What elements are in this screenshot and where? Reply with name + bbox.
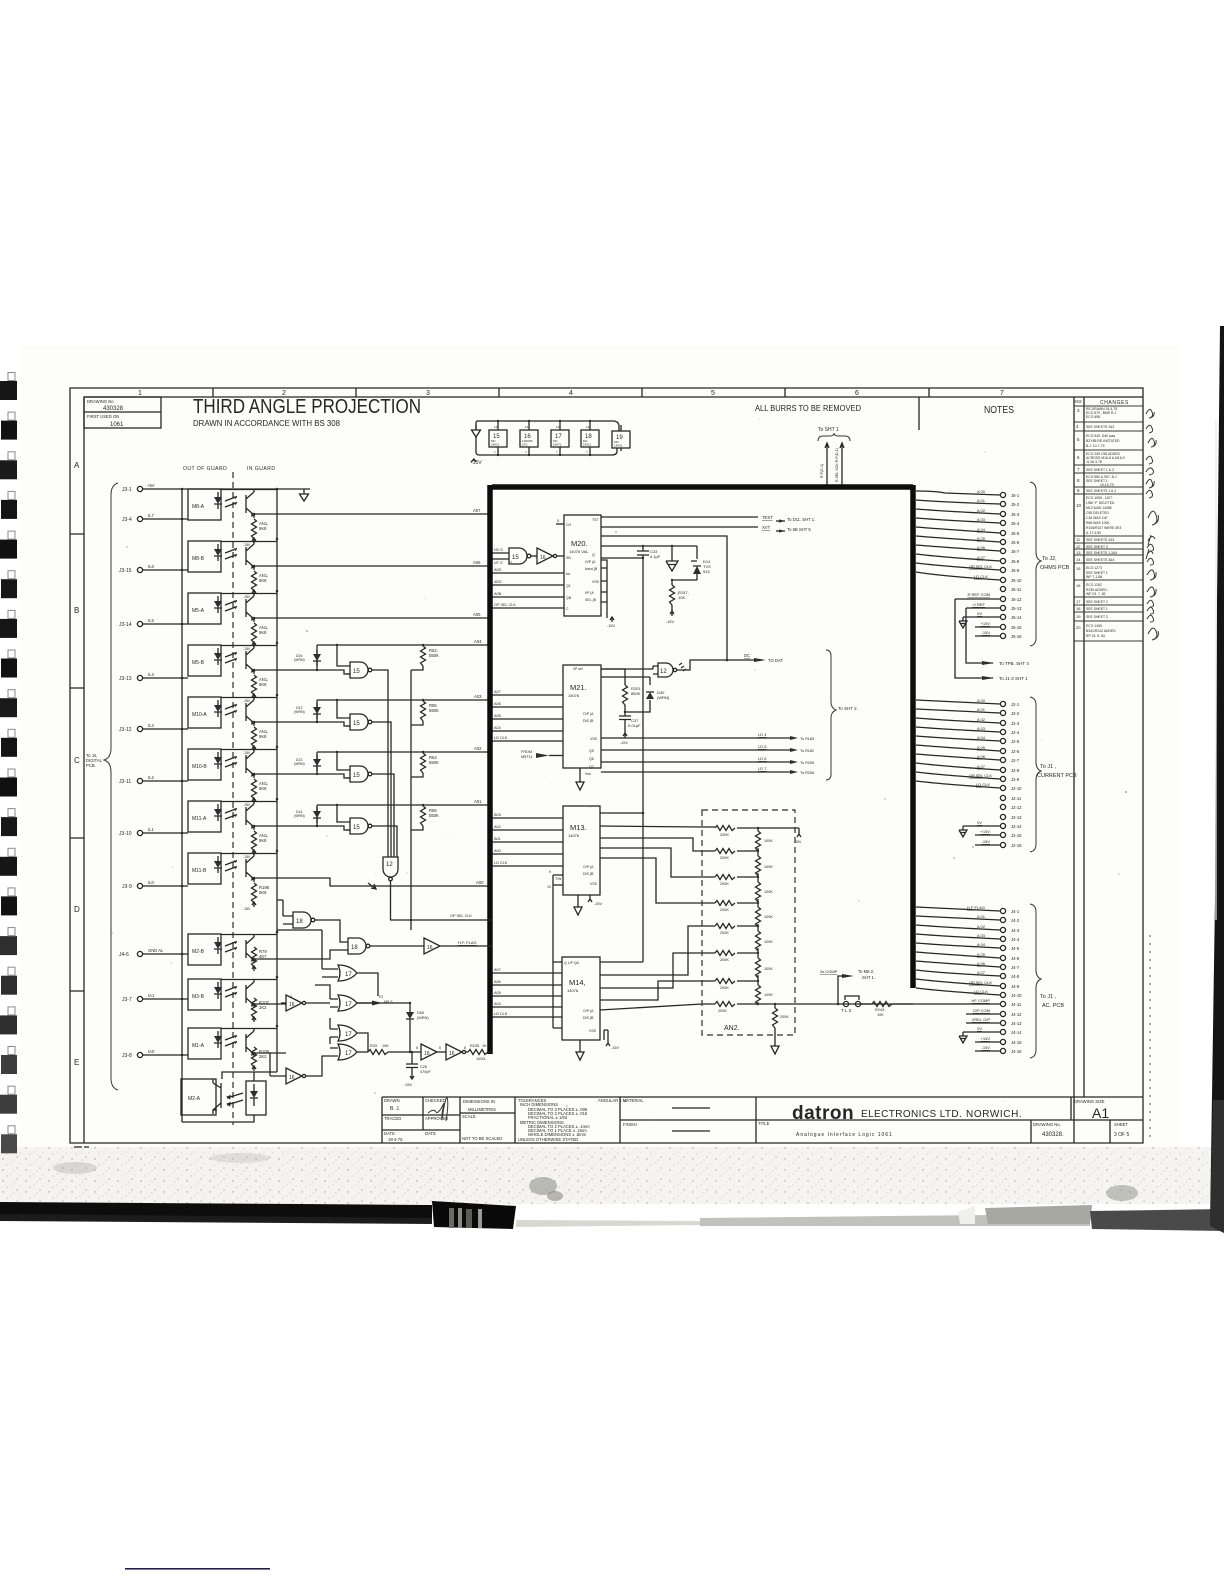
svg-text:10K.: 10K. (678, 595, 686, 600)
svg-text:200K: 200K (720, 986, 729, 990)
+5V input J3-1 (122, 483, 310, 493)
svg-text:ALL BURRS TO BE REMOVED: ALL BURRS TO BE REMOVED (755, 403, 861, 413)
pull resistor R55 550K (411, 700, 439, 725)
svg-text:J4-15: J4-15 (1011, 1040, 1022, 1045)
svg-text:10K: 10K (382, 1044, 389, 1048)
svg-text:O/P {A: O/P {A (585, 560, 596, 564)
svg-text:17: 17 (345, 1002, 352, 1008)
svg-text:200K: 200K (718, 1009, 727, 1013)
svg-text:200K: 200K (720, 958, 729, 962)
svg-text:IL6: IL6 (148, 564, 154, 569)
svg-text:14076.: 14076. (567, 988, 579, 993)
svg-text:HF COMP: HF COMP (972, 998, 991, 1003)
svg-text:J5-10: J5-10 (1011, 578, 1022, 583)
svg-text:CURRENT PCB: CURRENT PCB (1037, 773, 1077, 779)
svg-text:VSS: VSS (589, 1029, 597, 1033)
svg-text:3 OF 5: 3 OF 5 (1114, 1132, 1130, 1138)
svg-text:5: 5 (416, 1046, 418, 1050)
OP SEL CLK net (390, 919, 492, 921)
svg-text:J4-6: J4-6 (119, 952, 129, 958)
svg-text:A06: A06 (494, 702, 501, 706)
aux wires rows 12-16 (955, 599, 1000, 636)
svg-text:A03: A03 (494, 813, 501, 817)
svg-text:APPROVED: APPROVED (425, 1116, 448, 1121)
wire bottom supply bus (476, 437, 617, 455)
svg-text:CHANGES: CHANGES (1100, 400, 1129, 406)
zone letter dividers left (70, 534, 84, 991)
svg-text:IA1: IA1 (148, 993, 155, 998)
row 8 resistor 200K (715, 1002, 913, 1014)
svg-text:550K: 550K (429, 708, 439, 713)
svg-text:AN2.: AN2. (724, 1025, 740, 1032)
svg-text:12: 12 (386, 862, 393, 868)
svg-text:J4-4: J4-4 (1011, 937, 1020, 942)
svg-text:M11-B: M11-B (192, 868, 207, 874)
svg-text:SHT 1.: SHT 1. (862, 975, 875, 980)
svg-text:J5-4: J5-4 (1011, 521, 1020, 526)
svg-text:14: 14 (494, 425, 498, 429)
svg-text:J2-15: J2-15 (1011, 833, 1022, 838)
NAND gate 15a (337, 645, 388, 857)
opto rows (119, 489, 492, 1122)
black shadow band bottom left (0, 1202, 432, 1219)
svg-text:SCALE: SCALE (462, 1114, 476, 1119)
svg-text:C26: C26 (420, 1065, 427, 1069)
junction dots (181, 488, 279, 1057)
pullup diode D12 (294, 700, 321, 722)
svg-text:-15V: -15V (243, 907, 251, 911)
svg-text:19: 19 (1076, 614, 1081, 619)
svg-text:J4-3: J4-3 (1011, 928, 1020, 933)
svg-text:5: 5 (557, 519, 559, 523)
outer border (70, 388, 1143, 1143)
row 3 resistor 200K (715, 875, 758, 887)
svg-text:R65 WAS 100K: R65 WAS 100K (1086, 521, 1110, 525)
svg-text:TITLE: TITLE (758, 1121, 770, 1126)
svg-text:2K2: 2K2 (259, 1005, 267, 1010)
svg-text:14071: 14071 (553, 443, 562, 447)
svg-text:DC: DC (744, 653, 750, 658)
svg-text:17: 17 (345, 1032, 352, 1038)
svg-text:M11-A: M11-A (192, 816, 207, 822)
svg-text:13: 13 (1076, 550, 1081, 555)
svg-text:0V: 0V (977, 820, 982, 825)
pullup diode D15 (294, 645, 321, 670)
svg-text:J4-7: J4-7 (1011, 965, 1020, 970)
svg-text:IL2: IL2 (148, 775, 154, 780)
svg-text:DIS {B: DIS {B (583, 1016, 594, 1020)
OR gate 17d (309, 1044, 368, 1076)
svg-text:H.F. FLAG: H.F. FLAG (458, 940, 477, 945)
scan dust specks (101, 418, 1128, 1120)
svg-text:A 06: A 06 (977, 961, 986, 966)
Q output bus (601, 545, 697, 547)
svg-text:J4-14: J4-14 (1011, 1030, 1022, 1035)
ladder resistor 100K 5 (756, 925, 774, 953)
M20 input nets (492, 573, 556, 608)
ladder resistor 100K 2 (756, 850, 774, 877)
svg-text:SEE SHEET 2: SEE SHEET 2 (1086, 615, 1108, 619)
svg-text:5K8: 5K8 (259, 890, 267, 895)
svg-text:+15V: +15V (981, 829, 991, 834)
svg-text:R REF COM: R REF COM (968, 592, 990, 597)
svg-text:-15V: -15V (243, 803, 251, 807)
svg-text:OP SEL CLK: OP SEL CLK (494, 603, 516, 607)
svg-text:DIS {B: DIS {B (583, 719, 594, 723)
svg-text:VSS: VSS (592, 580, 600, 584)
IC 16 (520, 421, 538, 455)
NAND gate 18b (286, 938, 424, 959)
svg-text:VSS: VSS (590, 737, 598, 741)
svg-text:NO S: NO S (494, 548, 503, 552)
svg-text:J3-15: J3-15 (119, 568, 132, 574)
svg-text:J5-15: J5-15 (1011, 625, 1022, 630)
svg-text:B341/R242 ADDED: B341/R242 ADDED (1086, 629, 1116, 633)
svg-text:To J1 ,: To J1 , (1040, 994, 1057, 1000)
svg-text:200K: 200K (720, 908, 729, 912)
svg-text:-15V: -15V (666, 620, 674, 624)
To SHT 2 brace (826, 650, 836, 780)
NAND gate 15b (337, 700, 391, 857)
svg-text:(WRN): (WRN) (417, 1016, 429, 1020)
svg-text:7: 7 (1000, 390, 1004, 397)
pin numbers J5 (1011, 493, 1022, 639)
svg-text:ECO 1055 , 1107: ECO 1055 , 1107 (1086, 496, 1112, 500)
svg-text:A 01: A 01 (977, 498, 986, 503)
opto-isolator M5-B (119, 645, 350, 703)
svg-text:M2-B: M2-B (192, 949, 205, 955)
svg-text:MATERIAL: MATERIAL (623, 1098, 644, 1103)
svg-text:J2-5: J2-5 (1011, 739, 1020, 744)
svg-text:4DD: 4DD (494, 580, 502, 584)
svg-text:5K8: 5K8 (259, 630, 267, 635)
input NAND gate 15 (492, 548, 531, 565)
svg-text:5K8: 5K8 (259, 682, 267, 687)
guard dashed line (232, 472, 234, 1125)
svg-text:SHEET: SHEET (1114, 1122, 1128, 1127)
svg-text:SEE SHEETS 2&3: SEE SHEETS 2&3 (1086, 538, 1114, 542)
svg-text:UNLESS OTHERWISE STATED: UNLESS OTHERWISE STATED (518, 1137, 578, 1142)
svg-text:1061: 1061 (110, 422, 124, 428)
svg-text:A06: A06 (494, 980, 501, 984)
M13 ground (574, 895, 582, 915)
ladder resistor 100K 7 (756, 980, 774, 1005)
svg-text:A 07: A 07 (977, 764, 986, 769)
svg-text:ECO 698: ECO 698 (1086, 415, 1100, 419)
svg-text:3: 3 (426, 390, 430, 397)
svg-text:M20.: M20. (571, 539, 588, 548)
IC 17 (551, 421, 569, 455)
svg-text:J3-11: J3-11 (119, 779, 131, 785)
svg-text:200K: 200K (720, 931, 729, 935)
connector pins J4-1..J4-16 (1000, 908, 1005, 913)
svg-text:-15V: -15V (982, 839, 991, 844)
dashed box (702, 810, 795, 1035)
svg-text:FROM: FROM (521, 750, 532, 754)
svg-text:14001: 14001 (614, 444, 623, 448)
svg-text:To R205: To R205 (800, 761, 814, 765)
svg-text:DRAWING No.: DRAWING No. (1033, 1122, 1061, 1127)
TEST output (601, 516, 758, 518)
svg-text:To R206: To R206 (800, 771, 814, 775)
svg-text:J3-13: J3-13 (119, 676, 132, 682)
svg-text:A 07: A 07 (977, 970, 986, 975)
wire with up arrow (840, 443, 844, 487)
svg-text:A 04: A 04 (977, 527, 986, 532)
svg-text:J3-4: J3-4 (122, 517, 132, 523)
svg-text:M3-B: M3-B (192, 994, 205, 1000)
svg-text:0.1µF: 0.1µF (650, 554, 661, 559)
svg-text:LD CLK: LD CLK (976, 782, 990, 787)
svg-text:J4-2: J4-2 (1011, 918, 1020, 923)
svg-text:SEE SHEET 3: SEE SHEET 3 (1086, 545, 1108, 549)
svg-text:J4-13: J4-13 (1011, 1021, 1022, 1026)
connector pins J2-1..J2-16 (1000, 701, 1005, 706)
svg-text:TRACED: TRACED (384, 1116, 401, 1121)
svg-text:100K: 100K (764, 915, 773, 919)
svg-text:-V REF: -V REF (972, 602, 986, 607)
svg-text:+15V: +15V (981, 1036, 991, 1041)
row 5 resistor 200K (715, 924, 758, 936)
svg-text:(WRN): (WRN) (294, 710, 305, 714)
svg-text:DRAWING SIZE: DRAWING SIZE (1074, 1099, 1105, 1104)
svg-text:M12 WAS 14068: M12 WAS 14068 (1086, 506, 1112, 510)
opto-isolator M8-B (119, 541, 492, 599)
svg-text:To TPB. SHT 4: To TPB. SHT 4 (999, 661, 1029, 666)
opto-isolator M2-A (reversed) (181, 1072, 277, 1122)
row lines (1074, 406, 1143, 641)
svg-text:WP 7-1-88: WP 7-1-88 (1086, 575, 1102, 579)
svg-text:J2-10: J2-10 (1011, 786, 1022, 791)
svg-text:0V: 0V (977, 611, 982, 616)
svg-text:17: 17 (345, 1051, 352, 1057)
svg-text:A05: A05 (473, 612, 481, 617)
svg-text:To 6B SHT 5: To 6B SHT 5 (787, 527, 811, 532)
pull resistor R54 550K (411, 752, 439, 777)
buffer 16e (446, 1044, 466, 1060)
svg-text:LD CLK: LD CLK (494, 736, 508, 740)
svg-text:GND AL: GND AL (148, 948, 164, 953)
svg-text:CH: CH (566, 523, 572, 527)
NAND gate 18a (277, 900, 348, 942)
link TL3 (841, 996, 861, 1013)
svg-text:SEE SHEET 2: SEE SHEET 2 (1086, 600, 1108, 604)
svg-text:WP 23. 7. 82: WP 23. 7. 82 (1086, 592, 1106, 596)
opto-isolator M11-B (122, 853, 492, 911)
svg-text:B. J.: B. J. (390, 1106, 400, 1112)
svg-text:ECO 1455: ECO 1455 (1086, 624, 1102, 628)
svg-text:T L 3: T L 3 (841, 1008, 852, 1013)
ground top of column (300, 489, 309, 501)
svg-text:VSS: VSS (590, 882, 598, 886)
NAND gate 15d (337, 805, 397, 857)
svg-text:To R183: To R183 (800, 737, 814, 741)
svg-text:IL 17.4.80: IL 17.4.80 (1086, 531, 1101, 535)
svg-text:15: 15 (353, 669, 360, 675)
Q top output to vertical (600, 812, 643, 814)
svg-text:-15V: -15V (243, 699, 251, 703)
svg-text:A 07: A 07 (977, 555, 986, 560)
svg-text:5: 5 (711, 390, 715, 397)
svg-text:550K: 550K (429, 760, 439, 765)
Q output down to DC junction (601, 536, 727, 660)
svg-text:BZY88 RE-INSTATED: BZY88 RE-INSTATED (1086, 439, 1120, 443)
svg-text:Analogue Interface Logic 10: Analogue Interface Logic 1061 (796, 1132, 893, 1138)
svg-text:14012: 14012 (491, 443, 500, 447)
svg-text:J5-6: J5-6 (1011, 540, 1020, 545)
svg-text:-15V: -15V (404, 1083, 412, 1087)
svg-text:15: 15 (353, 721, 360, 727)
svg-text:15: 15 (353, 825, 360, 831)
svg-text:-15V: -15V (243, 595, 251, 599)
svg-text:A1: A1 (1092, 1105, 1109, 1121)
pin numbers J2 (1011, 702, 1022, 848)
svg-text:J4-11: J4-11 (1011, 1002, 1022, 1007)
row 4 resistor 200K (715, 901, 758, 913)
svg-text:1: 1 (138, 390, 142, 397)
svg-text:ECO 1273: ECO 1273 (1086, 566, 1102, 570)
svg-text:9: 9 (549, 870, 551, 874)
svg-text:M13.: M13. (570, 823, 587, 832)
svg-text:J5-5: J5-5 (1011, 531, 1020, 536)
svg-text:550K: 550K (429, 653, 439, 658)
svg-text:To SHT 2.: To SHT 2. (838, 706, 858, 711)
opto-isolator M5-A (119, 593, 492, 651)
svg-text:2s COMP: 2s COMP (820, 969, 838, 974)
svg-text:(WRN): (WRN) (657, 695, 670, 700)
svg-text:430328: 430328 (103, 406, 124, 412)
net A03 (317, 699, 492, 701)
right edge black scan band (1210, 326, 1224, 1233)
svg-text:12: 12 (1076, 544, 1081, 549)
svg-text:A07: A07 (494, 690, 501, 694)
svg-text:20: 20 (1076, 625, 1081, 630)
svg-text:550K: 550K (429, 813, 439, 818)
pull resistor R55 550K (b) (411, 805, 439, 830)
svg-text:J5-1: J5-1 (1011, 493, 1020, 498)
svg-text:J5-8: J5-8 (1011, 559, 1020, 564)
svg-text:M5-B: M5-B (192, 660, 205, 666)
svg-text:LD CLK: LD CLK (494, 1012, 508, 1016)
svg-text:15: 15 (1076, 566, 1081, 571)
pullup diode D14 (294, 805, 321, 826)
buffer 16b (281, 995, 330, 1011)
svg-text:200K: 200K (720, 856, 729, 860)
svg-text:PCB.: PCB. (86, 763, 96, 768)
svg-text:DRAWN IN ACCORDANCE WITH BS 30: DRAWN IN ACCORDANCE WITH BS 308 (193, 419, 341, 428)
svg-text:D: D (74, 905, 80, 914)
zener D14 TVS 515 (691, 546, 711, 580)
NOTES divider line (918, 397, 920, 430)
svg-text:DRAWING No: DRAWING No (87, 399, 114, 404)
svg-text:J5-2: J5-2 (1011, 502, 1020, 507)
svg-text:Q L/P QA: Q L/P QA (564, 961, 580, 965)
NAND gate 12 (2-input) (601, 660, 762, 677)
opto-isolator M11-A (119, 801, 350, 859)
svg-text:+5V: +5V (147, 483, 155, 488)
svg-text:M5-A: M5-A (192, 608, 205, 614)
svg-text:To J1 ,: To J1 , (1040, 764, 1057, 770)
OR gate 17b (315, 985, 392, 1011)
svg-text:14011: 14011 (583, 443, 591, 447)
svg-text:R33: R33 (370, 1044, 377, 1048)
svg-text:A 04: A 04 (977, 735, 986, 740)
opto-isolator M10-B (119, 749, 350, 807)
svg-text:J2-16: J2-16 (1011, 843, 1022, 848)
outputs (600, 961, 643, 963)
svg-text:To M5-2,: To M5-2, (858, 969, 874, 974)
svg-text:A01: A01 (474, 799, 482, 804)
ladder resistor 100K 6 (756, 952, 774, 981)
collector bus (276, 489, 278, 1072)
svg-text:IL0: IL0 (148, 880, 154, 885)
svg-text:D65: D65 (417, 1011, 424, 1015)
IC 18 (581, 421, 599, 455)
svg-text:To SHT 1: To SHT 1 (818, 427, 839, 433)
brace (1030, 482, 1041, 646)
top zone strip inner line (84, 396, 1074, 398)
svg-text:430328.: 430328. (1042, 1132, 1064, 1138)
opto-isolator M1-A (122, 1028, 286, 1071)
svg-text:O/P {A: O/P {A (583, 712, 594, 716)
svg-text:18: 18 (351, 945, 358, 951)
T/W loop pins (547, 870, 563, 1028)
svg-text:A03: A03 (474, 694, 482, 699)
svg-text:LD CLK: LD CLK (974, 574, 988, 579)
signal labels J5 (968, 489, 993, 635)
svg-text:A06: A06 (473, 560, 481, 565)
svg-text:15: 15 (353, 773, 360, 779)
outputs to AN2 (600, 826, 715, 827)
resistor bus down (410, 670, 412, 930)
svg-text:-15V: -15V (620, 741, 628, 745)
svg-text:A 03: A 03 (977, 517, 986, 522)
pin numbers J4 (1011, 909, 1022, 1054)
svg-text:SEE SHEETS 3&4: SEE SHEETS 3&4 (1086, 558, 1114, 562)
svg-text:R P(D-1): R P(D-1) (820, 464, 824, 478)
svg-text:M14,: M14, (569, 978, 586, 987)
svg-text:J3-8: J3-8 (122, 1053, 132, 1059)
svg-text:THIRD ANGLE PROJECTION: THIRD ANGLE PROJECTION (193, 396, 421, 418)
OR gate 17c (330, 1018, 368, 1052)
svg-text:J2-12: J2-12 (1011, 805, 1022, 810)
svg-text:-15V: -15V (982, 630, 991, 635)
svg-text:18-4-75: 18-4-75 (388, 1137, 403, 1142)
svg-text:I/P sel: I/P sel (573, 667, 583, 671)
wire fan J2 rows 1-10 (916, 700, 1000, 788)
opto-isolator M3-B (122, 979, 286, 1022)
svg-text:A04: A04 (494, 1002, 501, 1006)
svg-text:A00: A00 (494, 849, 501, 853)
svg-text:100K: 100K (764, 839, 773, 843)
svg-text:16: 16 (289, 1002, 295, 1008)
svg-text:200K: 200K (720, 833, 729, 837)
svg-text:ISS: ISS (1075, 399, 1082, 404)
svg-text:J2-3: J2-3 (1011, 721, 1020, 726)
gray wedge right (985, 1205, 1092, 1224)
checked signature (428, 1097, 448, 1121)
svg-text:A04: A04 (494, 726, 501, 730)
svg-text:1K: 1K (482, 1044, 487, 1048)
svg-text:J5-14: J5-14 (1011, 615, 1022, 620)
svg-text:14076: 14076 (568, 833, 580, 838)
svg-text:A0B: A0B (494, 592, 502, 596)
inputs (492, 973, 562, 1017)
svg-text:100K: 100K (764, 865, 773, 869)
svg-text:4: 4 (569, 390, 573, 397)
svg-text:850K: 850K (631, 691, 641, 696)
svg-text:IL1: IL1 (148, 827, 154, 832)
